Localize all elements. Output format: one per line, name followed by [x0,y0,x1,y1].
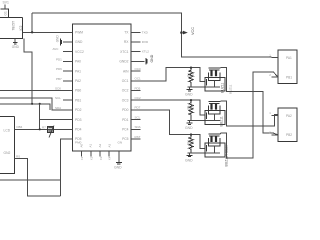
wire bottom-left long net [0,179,61,181]
node net B / pin10 riser [39,103,41,105]
X2 pin stubs [272,115,278,134]
svg-text:GND2: GND2 [119,60,128,64]
IC1 left pin stubs [63,32,73,139]
transistor Q2 mosfet symbol [207,101,221,121]
svg-text:DB4: DB4 [17,125,23,129]
svg-text:10K: 10K [191,105,195,110]
regulator IC2 box [0,17,23,38]
svg-text:GND: GND [114,166,122,170]
svg-text:SV1: SV1 [3,0,10,4]
svg-text:PD5: PD5 [135,86,141,90]
wire pin12 down-left long [61,139,63,196]
connector SV1 small box [1,5,9,18]
svg-text:IC2: IC2 [19,25,23,30]
wire VCC top rail [32,13,272,57]
transistor Q3 box [205,143,225,157]
connector X2 box [278,108,297,141]
svg-text:SCL: SCL [55,96,61,100]
wire net to pin7 from edge [0,87,63,91]
wire drain3 to connector X1 pin2 [221,72,278,158]
resistor R1 [187,68,194,88]
svg-text:SCK: SCK [55,87,61,91]
svg-text:BUZ11: BUZ11 [219,116,223,126]
node gate2/R2 junction [190,99,192,101]
svg-text:TXD: TXD [142,30,149,34]
transistor Q2 box [205,111,225,125]
VCC symbol [180,27,195,35]
node gate1/R1 junction [190,67,192,69]
svg-text:PD0: PD0 [122,108,129,112]
svg-text:G1: G1 [3,11,7,15]
resistor R3 [187,135,194,153]
X1 pin stubs [272,58,278,77]
LCD pin2 wire down and right [14,154,60,196]
svg-text:GND: GND [150,54,154,62]
svg-text:OC1: OC1 [122,79,129,83]
gnd below regulator [12,38,20,49]
svg-text:GN: GN [118,141,123,145]
X2 labels [269,111,292,137]
svg-text:VCC: VCC [191,27,195,35]
wire riser to pin10 and LCD wire [40,104,63,130]
wire net B from edge to pin8 [0,96,61,110]
svg-text:GND: GND [56,35,60,43]
svg-text:X3: X3 [99,156,103,160]
svg-text:PA2: PA2 [75,79,81,83]
svg-text:OC2: OC2 [135,96,142,100]
svg-text:BUZ11: BUZ11 [220,83,224,93]
svg-text:A1: A1 [89,143,93,147]
svg-text:PC5: PC5 [122,137,129,141]
gnd at IC1 left pin2 [56,35,62,46]
svg-text:PD7: PD7 [135,106,141,110]
svg-text:A2: A2 [98,143,102,147]
stage3 source wire [188,152,220,154]
wire drain1 to connector X2 pin2 [221,67,278,134]
svg-text:OC2: OC2 [122,89,129,93]
svg-text:10K: 10K [191,139,195,144]
svg-text:PA2: PA2 [286,114,292,118]
svg-text:RST: RST [135,135,141,139]
label left pin4 [56,57,62,61]
svg-text:OC0: OC0 [135,67,142,71]
transistor Q3 mosfet symbol [207,133,221,153]
X1 labels [269,53,292,79]
svg-text:PB1: PB1 [75,98,81,102]
svg-text:LCD: LCD [4,129,11,133]
svg-text:X4: X4 [108,156,112,160]
node gate3/R3 junction [190,133,192,135]
svg-text:PA1: PA1 [286,56,292,60]
svg-text:XTL2: XTL2 [142,50,150,54]
wire gate2 from IC pin8R [131,100,205,115]
gnd stage1 [185,87,193,97]
svg-text:SDA: SDA [135,125,141,129]
labels right pins [135,67,142,139]
svg-text:OC1: OC1 [135,77,142,81]
svg-text:GND: GND [185,126,193,130]
resistor R2 [187,100,194,120]
node LCD wire / pin10 riser [39,128,41,130]
svg-text:PB1: PB1 [286,75,292,79]
svg-text:AVC: AVC [53,47,60,51]
svg-text:VCC2: VCC2 [75,50,84,54]
stage1 source wire [188,86,220,88]
trimmer R7 on LCD wire [42,125,54,137]
connector SV1 top-left label [3,0,10,4]
transistor Q1 mosfet symbol [207,67,221,87]
gnd stage2 [185,121,193,131]
svg-text:X1: X1 [80,156,84,160]
svg-text:SDA: SDA [55,106,61,110]
gnd at IC bottom [114,163,122,170]
svg-text:A0: A0 [79,143,83,147]
Q2 value text [219,116,223,126]
svg-text:RX: RX [124,40,129,44]
Q1 value text [220,83,232,94]
svg-text:PD6: PD6 [56,67,62,71]
IC right pin outside labels top [142,30,150,53]
IC1 bottom inside labels [75,141,122,148]
svg-text:X2: X2 [90,156,94,160]
svg-text:BUZ11: BUZ11 [229,84,233,94]
wire net A from edge to pin9 [0,98,63,110]
svg-text:PB0: PB0 [75,89,81,93]
wire reg output to IC pin1 [23,31,63,33]
IC1 left inside labels [75,31,84,142]
svg-text:PD4: PD4 [75,128,82,132]
svg-text:A3: A3 [108,143,112,147]
svg-text:PC4: PC4 [122,128,129,132]
gnd stage3 [185,153,193,163]
node VCC riser from reg output [31,13,33,34]
svg-text:AIN: AIN [123,69,129,73]
node net B / regulator riser [31,103,33,105]
gnd at IC right pin4 [141,54,154,64]
svg-text:10K: 10K [191,72,195,77]
svg-text:PB7: PB7 [56,77,62,81]
IC1 right inside labels [119,31,129,142]
svg-text:PD1: PD1 [56,57,62,61]
svg-text:PD2: PD2 [75,108,82,112]
IC1 main MCU body [73,24,132,151]
svg-text:PA1: PA1 [75,69,81,73]
svg-text:GND: GND [185,159,193,163]
label left pin6 [56,77,62,81]
svg-text:GND: GND [185,93,193,97]
svg-text:PWM: PWM [75,31,83,35]
svg-text:OC3: OC3 [122,98,129,102]
svg-text:SCL: SCL [135,115,141,119]
label left pin5 [56,67,62,71]
svg-text:GND: GND [75,40,83,44]
transistor Q1 box [205,77,225,91]
svg-text:GND: GND [12,45,20,49]
LCD1 box [0,117,14,174]
IC1 bottom pin stubs [81,151,119,163]
svg-text:PB2: PB2 [286,133,292,137]
Q3 value text [225,145,229,167]
svg-text:XTC1: XTC1 [120,50,129,54]
svg-text:R7: R7 [42,125,46,129]
svg-text:RXD: RXD [142,40,149,44]
wire gate3 from IC pin9R [131,110,205,148]
svg-text:RS: RS [16,154,20,158]
wire gate1 from IC pin6R [131,68,205,82]
svg-text:PD3: PD3 [75,118,82,122]
svg-text:PA0: PA0 [75,60,81,64]
label left pin3 [53,47,60,51]
svg-text:GN2: GN2 [4,151,11,155]
IC1 right pin stubs [131,32,141,139]
LCD pin1 wire with trimmer to pin11 [14,125,62,129]
IC1 bottom outside labels [80,156,112,160]
wire reg bottom pin routing to net B [24,38,32,104]
svg-text:7805T: 7805T [12,21,16,31]
svg-text:PD1: PD1 [122,118,129,122]
connector X1 box [278,50,297,83]
wire drain2 to connector X2 pin1 [221,101,278,126]
stage2 source wire [188,120,220,122]
